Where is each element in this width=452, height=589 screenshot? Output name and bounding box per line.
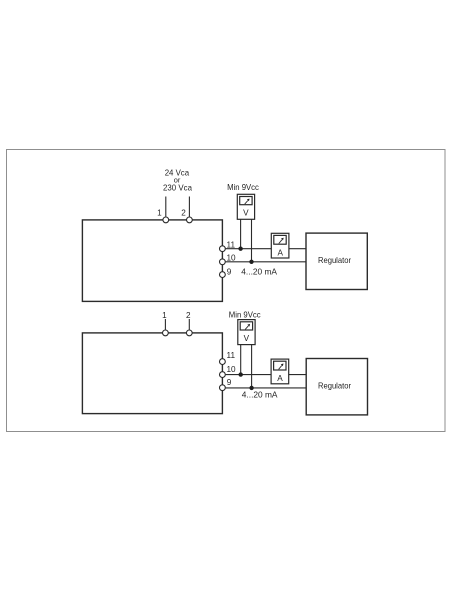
wire: voltmeter right lead to node 10 (upper) bbox=[251, 219, 253, 261]
wire: voltmeter left lead to node 10 (lower) bbox=[240, 345, 242, 375]
svg-text:9: 9 bbox=[227, 378, 232, 387]
terminal 9 (upper) bbox=[220, 272, 226, 278]
wire: voltmeter left lead to node 11 (upper) bbox=[240, 219, 242, 248]
wire: supply line to terminal 2 (upper) bbox=[188, 197, 190, 217]
svg-text:Min 9Vcc: Min 9Vcc bbox=[227, 183, 259, 192]
junction: voltmeter + on node 10 (lower) bbox=[239, 372, 243, 376]
terminal 10 (lower) bbox=[220, 372, 226, 378]
wire: voltmeter right lead to node 9 (lower) bbox=[251, 345, 253, 388]
svg-text:1: 1 bbox=[157, 209, 162, 218]
wire: stub to terminal 2 (lower) bbox=[188, 319, 190, 330]
svg-text:V: V bbox=[244, 334, 250, 343]
ammeter A (upper) bbox=[271, 233, 289, 258]
wire: ammeter to regulator (upper) bbox=[289, 248, 306, 250]
svg-text:10: 10 bbox=[227, 253, 237, 262]
voltmeter V (upper) bbox=[237, 194, 254, 219]
svg-text:1: 1 bbox=[162, 311, 167, 320]
terminal 2 (lower) bbox=[186, 330, 192, 336]
svg-text:4...20 mA: 4...20 mA bbox=[242, 391, 278, 400]
svg-text:11: 11 bbox=[227, 240, 236, 249]
ammeter A (lower) bbox=[271, 359, 289, 384]
regulator (upper) bbox=[306, 233, 367, 289]
junction: voltmeter - on node 10 (upper) bbox=[249, 260, 253, 264]
device box U2 (lower unit) bbox=[82, 333, 222, 414]
svg-text:9: 9 bbox=[227, 267, 232, 276]
junction: voltmeter - on node 9 (lower) bbox=[249, 386, 253, 390]
wire: terminal 10 to ammeter (lower) bbox=[226, 374, 272, 376]
wire: terminal 10 to regulator (upper) bbox=[226, 261, 306, 263]
svg-text:4...20 mA: 4...20 mA bbox=[241, 267, 277, 276]
svg-text:11: 11 bbox=[227, 351, 236, 360]
wire: ammeter to regulator (lower) bbox=[289, 374, 307, 376]
regulator (lower) bbox=[306, 359, 367, 415]
junction: voltmeter + on node 11 (upper) bbox=[238, 247, 242, 251]
svg-text:V: V bbox=[243, 209, 249, 218]
svg-text:2: 2 bbox=[186, 311, 191, 320]
terminal 10 (upper) bbox=[220, 259, 226, 265]
svg-text:A: A bbox=[277, 374, 283, 383]
terminal 11 (lower) bbox=[220, 359, 226, 365]
voltmeter V (lower) bbox=[238, 320, 255, 345]
device box U1 (upper unit) bbox=[82, 220, 222, 302]
terminal 1 (lower) bbox=[163, 330, 169, 336]
wire: stub to terminal 1 (lower) bbox=[164, 319, 166, 330]
svg-text:10: 10 bbox=[227, 365, 237, 374]
svg-text:230 Vca: 230 Vca bbox=[163, 184, 192, 193]
svg-text:Regulator: Regulator bbox=[318, 256, 351, 265]
svg-text:2: 2 bbox=[181, 209, 186, 218]
wire: terminal 11 to ammeter (upper) bbox=[226, 248, 272, 250]
terminal 1 (upper) bbox=[163, 217, 169, 223]
wire: terminal 9 to regulator (lower) bbox=[226, 387, 307, 389]
wire: supply line to terminal 1 (upper) bbox=[165, 197, 167, 217]
svg-text:Min 9Vcc: Min 9Vcc bbox=[229, 311, 261, 320]
terminal 2 (upper) bbox=[187, 217, 193, 223]
svg-text:A: A bbox=[277, 248, 283, 257]
label 24 Vca / or / 230 Vca (supply voltage) bbox=[163, 168, 192, 192]
terminal 9 (lower) bbox=[220, 385, 226, 391]
terminal 11 (upper) bbox=[220, 246, 226, 252]
svg-text:Regulator: Regulator bbox=[318, 382, 351, 391]
